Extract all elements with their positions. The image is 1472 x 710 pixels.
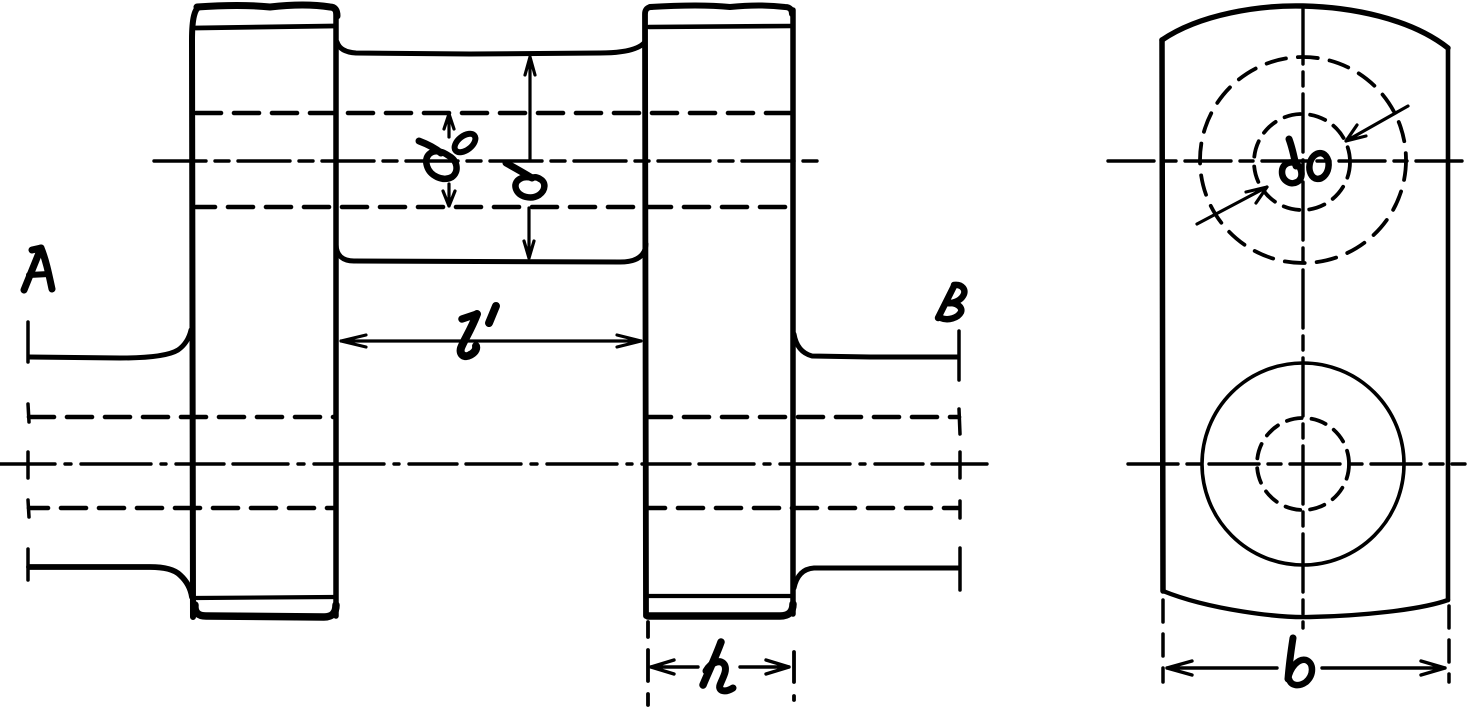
shaft bore hidden line lower right xyxy=(646,506,959,511)
dimension h extension left xyxy=(646,622,650,705)
shaft bore circle (hidden) xyxy=(1257,418,1349,510)
crankpin bore hidden line upper xyxy=(196,111,792,116)
left web top edge xyxy=(197,5,337,16)
main shaft centre line xyxy=(0,462,988,465)
left web top inner line xyxy=(196,26,334,28)
side view outline right edge xyxy=(1446,48,1451,600)
crankpin centre line xyxy=(154,159,820,162)
crankpin bottom edge xyxy=(336,244,646,262)
right shaft bottom edge xyxy=(794,568,958,588)
crankpin bore hidden line lower xyxy=(196,205,792,210)
label d0 xyxy=(419,130,479,179)
crankpin bore circle d0 (hidden) xyxy=(1254,114,1350,210)
dimension d0 lower arrow xyxy=(443,184,455,206)
side view lower horizontal centre line xyxy=(1128,462,1465,465)
shaft bore hidden line upper left xyxy=(29,415,336,420)
shaft bore hidden line lower left xyxy=(29,506,336,511)
right web left edge xyxy=(645,7,652,616)
right web right edge xyxy=(790,10,796,614)
crankpin circle d (hidden) xyxy=(1200,57,1406,263)
left shaft end break ticks xyxy=(28,322,29,580)
shaft bore hidden line upper right xyxy=(646,415,959,420)
dimension b extension left xyxy=(1161,600,1165,682)
dimension h line with arrows xyxy=(651,660,789,674)
side view upper horizontal centre line xyxy=(1108,159,1462,162)
left web bottom edge xyxy=(195,605,336,617)
dimension b extension right xyxy=(1447,606,1451,682)
side view outline top arc xyxy=(1162,6,1448,48)
left web bottom inner line xyxy=(196,597,334,598)
label A xyxy=(24,248,52,290)
crankpin top edge xyxy=(337,42,645,54)
right web top inner line xyxy=(649,26,791,27)
leader arrow lower left xyxy=(1197,187,1267,224)
left shaft top edge xyxy=(29,330,191,358)
label l' xyxy=(461,306,496,356)
right shaft top edge xyxy=(794,334,958,357)
left shaft bottom edge xyxy=(29,567,192,597)
shaft circle xyxy=(1202,363,1404,565)
label B xyxy=(938,285,964,319)
side view vertical centre line xyxy=(1301,6,1304,628)
side view outline left edge xyxy=(1162,40,1163,591)
right shaft end break ticks xyxy=(959,331,960,590)
left web left edge xyxy=(192,7,200,617)
dimension l' line xyxy=(341,335,641,347)
leader arrow upper right xyxy=(1346,106,1408,141)
dimension d line with arrows xyxy=(524,57,535,258)
right web bottom edge xyxy=(648,604,793,616)
dimension h extension right xyxy=(792,652,796,700)
dimension b line with arrows xyxy=(1167,661,1445,675)
label b xyxy=(1288,638,1312,685)
left web right edge xyxy=(333,10,339,616)
label d xyxy=(506,163,544,197)
label d0 side view xyxy=(1282,139,1331,183)
dimension d0 upper arrow xyxy=(444,114,454,137)
label h xyxy=(703,642,733,691)
right web top edge xyxy=(650,6,792,15)
side view outline bottom arc xyxy=(1163,591,1448,617)
right web bottom inner line xyxy=(649,594,791,598)
